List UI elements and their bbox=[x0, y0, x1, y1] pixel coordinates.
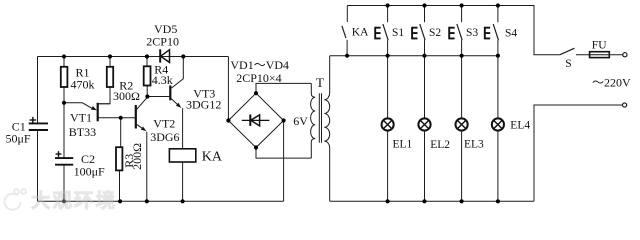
switch S blade bbox=[560, 48, 575, 55]
wire VT3 collector up to rail bbox=[171, 57, 183, 89]
node bus KA coil bbox=[181, 199, 185, 203]
transistor VT3 (3DG12) bbox=[170, 85, 181, 108]
wire switch row bbox=[330, 55, 498, 57]
diode VD5 bbox=[160, 49, 169, 62]
transformer T windings and core bbox=[311, 56, 330, 202]
plug symbol E of S1 bbox=[375, 27, 380, 40]
bridge rectifier VD1~VD4 bbox=[228, 93, 283, 147]
node R1-C2-emitter bbox=[62, 101, 66, 105]
node bottom bus EL3 bbox=[460, 199, 464, 203]
wire C2 to bus bbox=[63, 165, 65, 201]
svg-text:EL3: EL3 bbox=[464, 139, 484, 151]
transistor VT2 (3DG6) bbox=[136, 105, 147, 131]
wire R3 to bus bbox=[119, 170, 121, 201]
svg-text:BT33: BT33 bbox=[69, 125, 96, 139]
svg-text:200Ω: 200Ω bbox=[130, 143, 144, 170]
svg-text:S: S bbox=[565, 58, 571, 70]
node top bus S4 bbox=[496, 3, 500, 7]
node row S3 bbox=[460, 54, 464, 58]
plug symbol E of S2 bbox=[412, 27, 417, 40]
plus sign C2 bbox=[56, 151, 62, 157]
plug symbol E of S4 bbox=[485, 27, 490, 40]
node bottom bus EL4 bbox=[496, 199, 500, 203]
transformer core bbox=[319, 93, 321, 143]
wire KA contact upper bbox=[346, 6, 348, 23]
wire node to R3 bbox=[120, 118, 122, 147]
wire VT1 b1 to VT2 base bbox=[98, 117, 136, 119]
svg-text:VT1: VT1 bbox=[70, 111, 92, 125]
capacitor C2 bbox=[55, 158, 73, 165]
node B1-R3 bbox=[119, 116, 123, 120]
wire R2 bottom to VT1 b2 bbox=[98, 87, 110, 104]
resistor R4 bbox=[144, 66, 151, 85]
switch S3 bbox=[457, 6, 462, 56]
svg-text:3DG12: 3DG12 bbox=[186, 98, 221, 112]
wire bridge bottom connector to transformer left winding bottom bbox=[256, 148, 311, 159]
wire top bus bbox=[347, 6, 560, 55]
svg-text:～220V: ～220V bbox=[592, 76, 631, 90]
node bridge top bbox=[254, 91, 258, 95]
svg-text:4.3k: 4.3k bbox=[152, 73, 173, 87]
transformer left winding bbox=[311, 83, 316, 158]
node row S4 bbox=[496, 54, 500, 58]
svg-text:2CP10×4: 2CP10×4 bbox=[236, 71, 281, 85]
resistor R3 bbox=[116, 147, 122, 170]
node rail R1 bbox=[62, 54, 66, 58]
svg-text:T: T bbox=[316, 75, 324, 90]
transformer right winding bbox=[324, 56, 329, 202]
lamp EL4 bbox=[492, 56, 504, 202]
wire S fuse segment bbox=[576, 54, 623, 56]
node bottom bus EL2 bbox=[422, 199, 426, 203]
node bus C2 bbox=[62, 199, 66, 203]
node top bus S1 bbox=[386, 3, 390, 7]
node bus R3 bbox=[118, 199, 122, 203]
transistor VT1 (BT33) bbox=[91, 103, 110, 122]
node top bus S2 bbox=[422, 3, 426, 7]
node bus VT2 emitter bbox=[145, 199, 149, 203]
wire R2 top bbox=[109, 57, 111, 67]
node bottom bus EL1 bbox=[386, 199, 390, 203]
svg-text:KA: KA bbox=[202, 149, 223, 164]
node rail VT3 collector bbox=[181, 54, 185, 58]
svg-text:EL2: EL2 bbox=[430, 139, 450, 151]
switch S2 bbox=[420, 6, 425, 56]
svg-text:EL4: EL4 bbox=[510, 120, 530, 132]
node row S2 bbox=[422, 54, 426, 58]
wire R4 bottom to node bbox=[146, 86, 148, 97]
wire VT2 emitter down to bus bbox=[146, 132, 148, 202]
fuse FU bbox=[590, 52, 610, 58]
wire node to C2 bbox=[63, 103, 65, 158]
wire VT3 emitter to KA coil bbox=[182, 108, 184, 149]
svg-text:3DG6: 3DG6 bbox=[150, 130, 179, 144]
relay coil KA bbox=[169, 149, 195, 162]
wire bottom bus lamps bbox=[330, 200, 534, 202]
wire bottom-left bus bbox=[38, 200, 284, 202]
wire KA coil to bus bbox=[182, 162, 184, 201]
svg-text:EL1: EL1 bbox=[393, 139, 413, 151]
resistor R1 bbox=[61, 67, 68, 87]
svg-text:S1: S1 bbox=[392, 27, 404, 39]
svg-text:50μF: 50μF bbox=[6, 131, 31, 145]
plus sign C1 bbox=[30, 117, 36, 123]
node rail R2 bbox=[108, 54, 112, 58]
lamp EL3 bbox=[456, 56, 468, 202]
svg-text:100μF: 100μF bbox=[74, 165, 105, 179]
wire KA contact lower bbox=[346, 40, 348, 56]
wire VT1 emitter lead bbox=[64, 103, 94, 109]
wire bridge right corner down to bus bbox=[283, 121, 285, 202]
wire C1 to bottom bus bbox=[37, 130, 39, 201]
lamp EL1 bbox=[382, 56, 394, 202]
wire R1 bottom to node bbox=[63, 87, 65, 103]
node bridge right bbox=[282, 118, 286, 122]
wire left rail down to C1 bbox=[37, 57, 39, 124]
wire rail down to bridge left corner bbox=[227, 57, 229, 121]
lamp EL2 bbox=[418, 56, 430, 202]
svg-text:大观环境: 大观环境 bbox=[31, 189, 117, 212]
node R4-VT2C-VT3B bbox=[145, 94, 149, 98]
wire R4 top bbox=[146, 57, 148, 67]
svg-text:2CP10: 2CP10 bbox=[146, 34, 179, 48]
terminal upper 220V bbox=[623, 53, 627, 57]
svg-text:KA: KA bbox=[352, 27, 369, 39]
svg-text:300Ω: 300Ω bbox=[113, 89, 140, 103]
switch S4 bbox=[493, 6, 498, 56]
svg-text:FU: FU bbox=[592, 39, 607, 51]
svg-text:S2: S2 bbox=[429, 27, 441, 39]
switch S1 bbox=[383, 6, 388, 56]
node bridge left bbox=[226, 118, 230, 122]
svg-text:VT2: VT2 bbox=[153, 117, 175, 131]
node row S1 bbox=[386, 54, 390, 58]
node row KA bbox=[345, 54, 349, 58]
terminal lower 220V bbox=[623, 103, 627, 107]
resistor R2 bbox=[107, 67, 113, 87]
wire R1 top bbox=[63, 57, 65, 67]
svg-text:470k: 470k bbox=[71, 78, 95, 92]
svg-text:S3: S3 bbox=[466, 27, 478, 39]
watermark bbox=[5, 189, 118, 212]
wire VT3 base bbox=[147, 96, 169, 98]
wire bridge top connector to transformer left winding top bbox=[256, 83, 311, 93]
svg-text:6V: 6V bbox=[293, 114, 308, 128]
wire right return to lower terminal bbox=[534, 105, 623, 201]
node bridge bottom bbox=[254, 145, 258, 149]
svg-text:S4: S4 bbox=[505, 28, 517, 40]
node top bus S3 bbox=[460, 3, 464, 7]
plug symbol E of S3 bbox=[449, 27, 454, 40]
wire VT2 collector bbox=[137, 97, 148, 110]
node rail R4 bbox=[145, 54, 149, 58]
capacitor C1 bbox=[29, 123, 48, 130]
switch KA blade bbox=[342, 26, 346, 38]
wire top-left rail bbox=[38, 56, 229, 58]
